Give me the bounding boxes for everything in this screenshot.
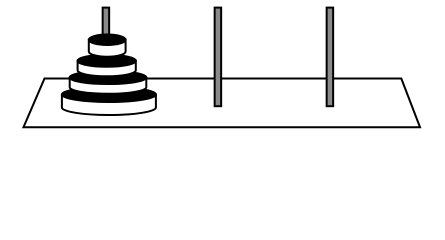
peg B (middle) bbox=[215, 8, 222, 107]
disk 1 (top, smallest) bbox=[89, 35, 126, 57]
tower of hanoi diagram bbox=[0, 0, 445, 144]
disk 3 bbox=[70, 71, 147, 94]
disk 2 bbox=[78, 55, 136, 77]
peg A (left) bbox=[103, 8, 110, 107]
peg C (right) bbox=[327, 8, 334, 107]
disk 4 (bottom, largest) bbox=[62, 87, 156, 115]
base platform bbox=[24, 79, 421, 128]
